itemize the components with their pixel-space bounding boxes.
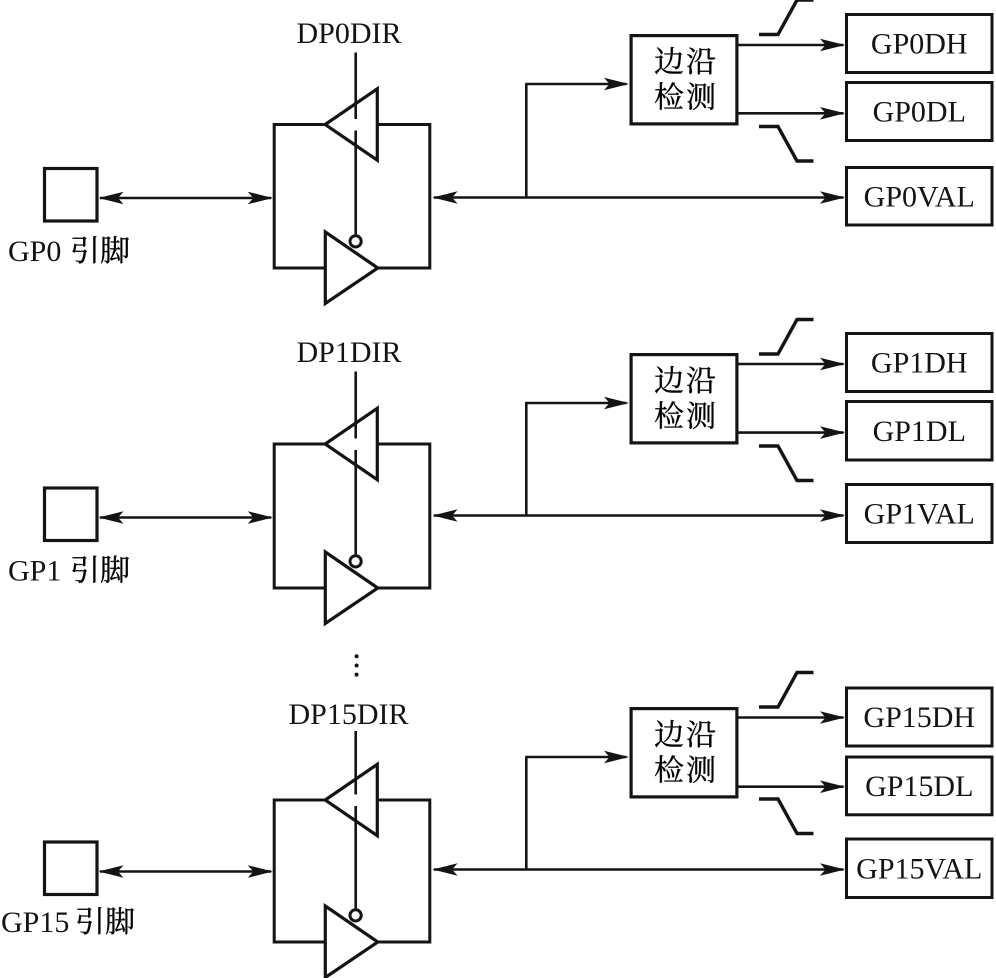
wire: DP0DIR control line [354,53,357,235]
edge detector box 边沿检测 GP1 [631,355,737,443]
wire: edge detector to GP1DL [738,426,846,439]
wire: edge detector to GP0DL [738,107,846,120]
wire: edge detector to GP0DH [738,39,846,52]
svg-text:GP15: GP15 [1,906,69,939]
svg-text:DP0DIR: DP0DIR [297,17,402,50]
falling edge symbol GP15 [759,799,814,834]
svg-text:GP0VAL: GP0VAL [864,180,975,213]
buffer block rectangle GP1 [274,444,430,588]
register box GP1DH [847,334,993,392]
tri-state output buffer (points left) GP15 [325,764,377,835]
svg-text:DP1DIR: DP1DIR [297,336,402,369]
wire: buffer block to GP0VAL (double arrow) [433,191,845,204]
wire: branch junction up to edge detector GP15 [525,751,629,870]
register box GP15DH [847,688,993,746]
label GP0 引脚 [8,235,129,268]
wire: bidirectional arrow GP0 pin to buffer block [99,192,273,205]
buffer block rectangle GP15 [274,800,430,942]
inverter bubble on input buffer enable GP1 [350,556,361,567]
GP0 pin square [45,169,98,222]
tri-state output buffer (points left) GP0 [325,89,377,160]
rising edge symbol GP1 [759,320,814,355]
label DP1DIR [297,336,402,369]
buffer block rectangle GP0 [274,125,430,269]
label DP15DIR [289,698,409,731]
inverter bubble on input buffer enable GP15 [350,910,361,921]
GP1 pin square [45,488,98,541]
svg-text:GP1: GP1 [8,555,61,588]
label DP0DIR [297,17,402,50]
register box GP15DL [847,757,993,815]
wire: branch junction up to edge detector GP0 [525,78,629,198]
wire: edge detector to GP1DH [738,358,846,371]
tri-state output buffer (points left) GP1 [325,408,377,479]
wire: buffer block to GP15VAL (double arrow) [433,863,845,876]
input buffer (points right) GP0 [325,232,378,304]
svg-text:GP15VAL: GP15VAL [856,852,982,885]
edge detector box 边沿检测 GP0 [631,36,737,124]
register box GP0DH [847,15,993,73]
svg-text:GP15DH: GP15DH [863,701,975,734]
rising edge symbol GP15 [759,673,814,708]
rising edge symbol GP0 [759,0,814,35]
wire: bidirectional arrow GP1 pin to buffer block [99,511,273,524]
svg-text:GP0DL: GP0DL [873,96,966,129]
falling edge symbol GP0 [759,127,814,162]
label GP1 引脚 [8,555,129,588]
input buffer (points right) GP1 [325,552,378,624]
wire: branch junction up to edge detector GP1 [525,397,629,516]
register box GP0DL [847,83,993,141]
svg-text:GP0: GP0 [8,235,61,268]
register box GP15VAL [847,839,993,898]
register box GP1DL [847,402,993,461]
register box GP0VAL [847,168,993,226]
svg-text:GP1DL: GP1DL [873,415,966,448]
inverter bubble on input buffer enable GP0 [350,236,361,247]
register box GP1VAL [847,485,993,543]
wire: edge detector to GP15DH [738,711,846,724]
input buffer (points right) GP15 [325,906,378,978]
label GP15 引脚 [1,906,134,939]
GP15 pin square [45,842,98,895]
wire: DP15DIR control line [354,731,357,908]
wire: buffer block to GP1VAL (double arrow) [433,509,845,522]
svg-text:GP1VAL: GP1VAL [864,498,975,531]
wire: bidirectional arrow GP15 pin to buffer block [99,865,273,878]
svg-text:DP15DIR: DP15DIR [289,698,409,731]
edge detector box 边沿检测 GP15 [631,709,737,797]
svg-text:GP15DL: GP15DL [865,770,973,803]
wire: DP1DIR control line [354,372,357,555]
wire: edge detector to GP15DL [738,780,846,793]
svg-text:GP0DH: GP0DH [871,28,968,61]
vertical ellipsis dots [355,654,359,676]
svg-text:GP1DH: GP1DH [871,347,968,380]
falling edge symbol GP1 [759,446,814,481]
